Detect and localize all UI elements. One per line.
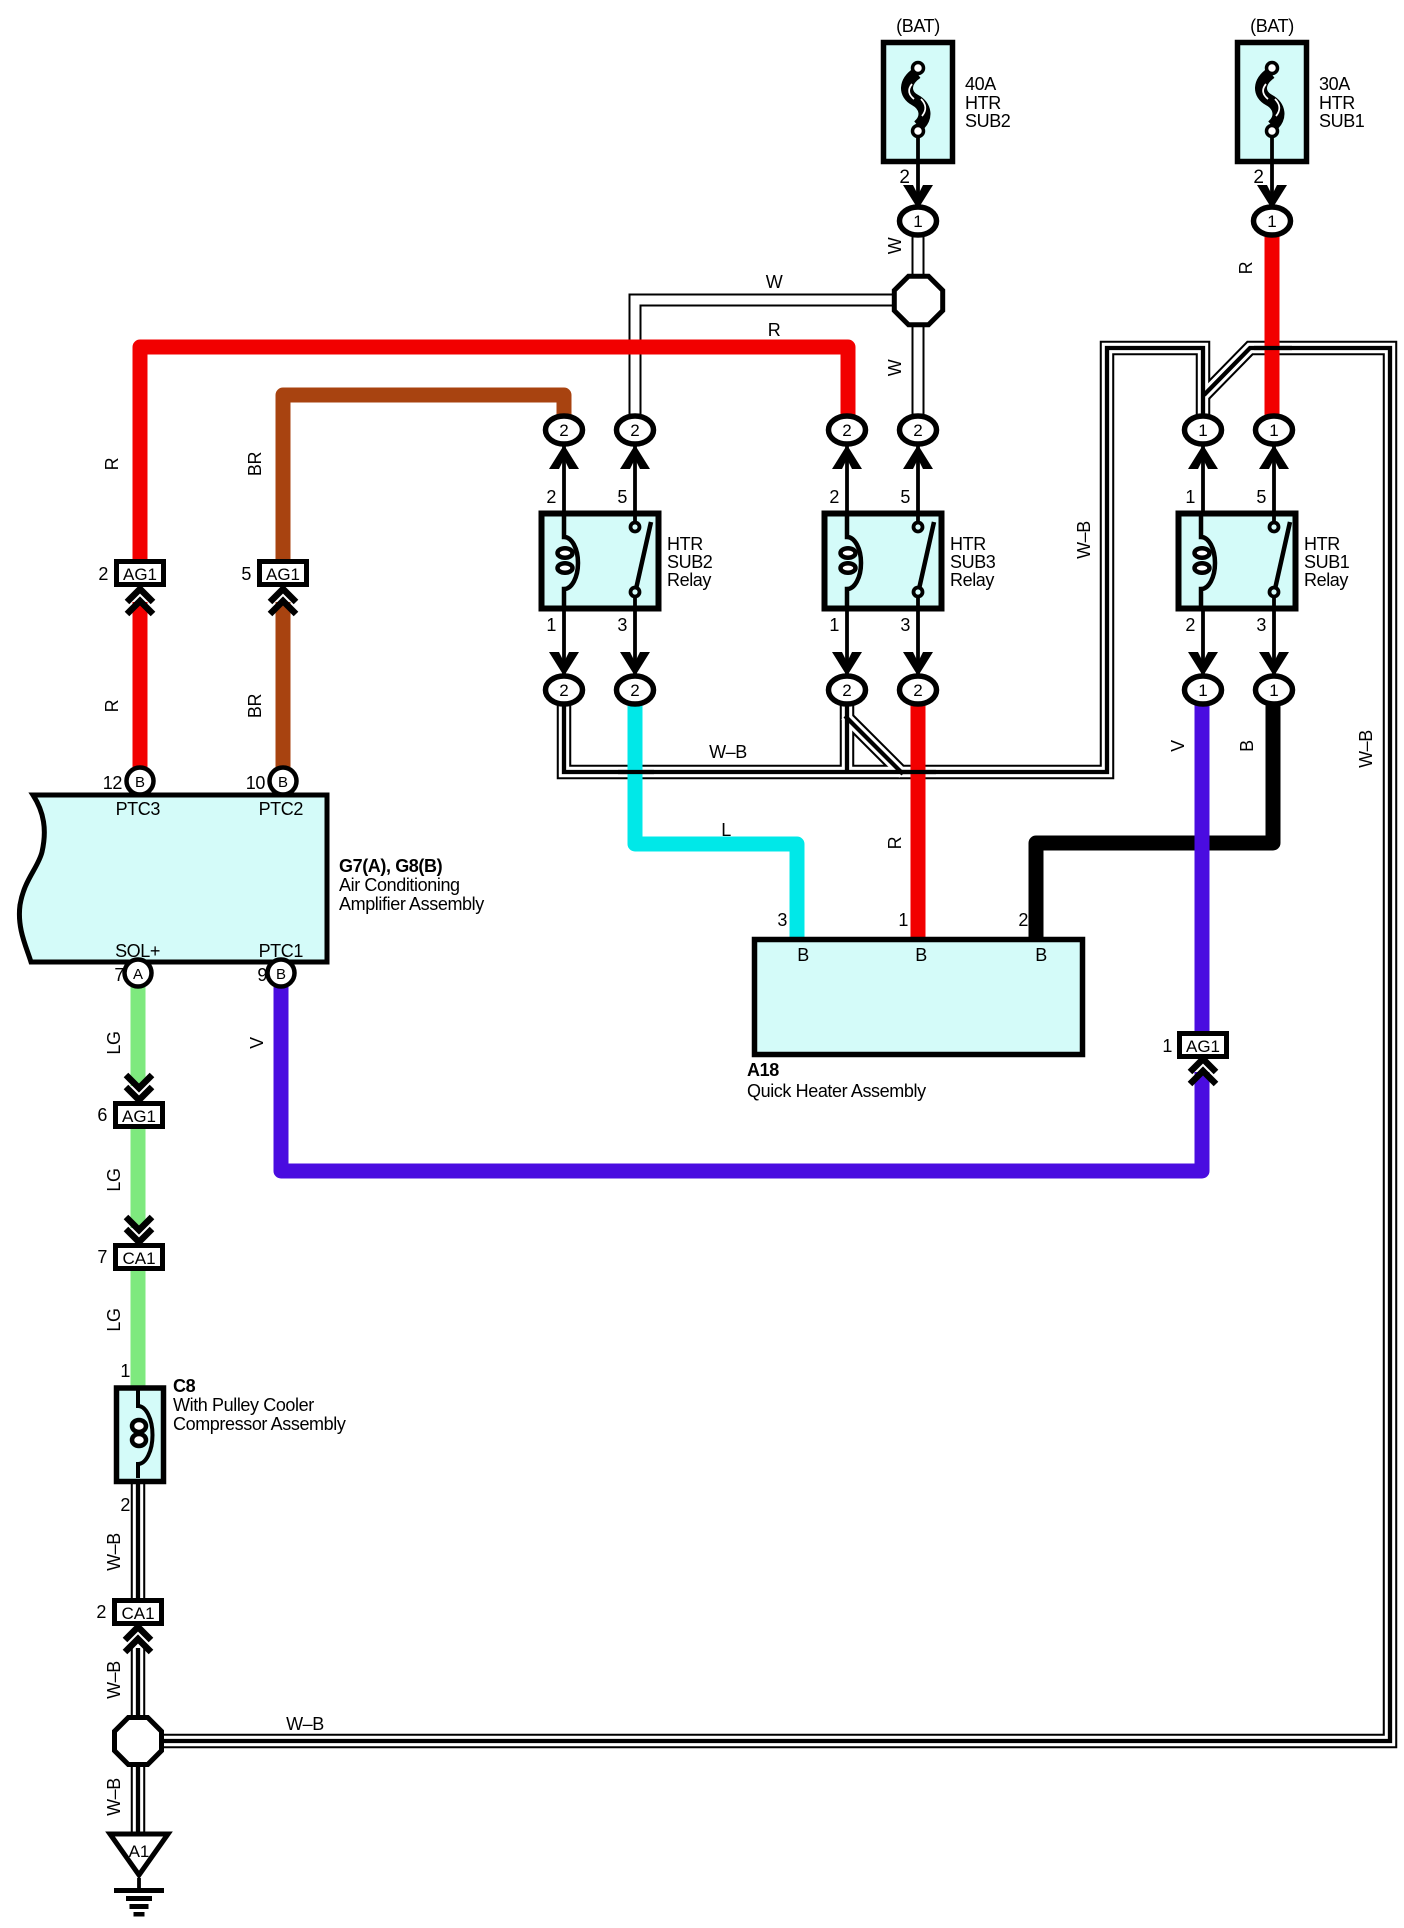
arrow up at SUB2 relay pin2	[549, 445, 579, 469]
arrow down at SUB1 relay pin3	[1259, 652, 1289, 676]
arrow down at SUB2 relay pin1	[549, 652, 579, 676]
svg-text:SUB2: SUB2	[667, 552, 713, 572]
svg-text:B: B	[1035, 945, 1047, 965]
svg-text:(BAT): (BAT)	[896, 16, 940, 36]
svg-text:10: 10	[246, 773, 266, 793]
wire R: amplifier PTC3 pin12 to HTR SUB3 relay coil pin2	[140, 347, 848, 561]
svg-text:3: 3	[777, 910, 787, 930]
connector ellipse 1 at SUB1 relay pin5	[1256, 416, 1293, 444]
amplifier pin 10 circle B	[270, 768, 297, 795]
wire B: SUB1 relay pin3 to A18 pin2	[1036, 690, 1273, 940]
amplifier pin 9 circle B	[268, 960, 295, 987]
svg-text:SUB1: SUB1	[1304, 552, 1350, 572]
svg-text:2: 2	[842, 681, 851, 700]
wire W junction octagon to SUB2 relay pin5	[635, 300, 918, 430]
svg-text:2: 2	[842, 421, 851, 440]
svg-text:5: 5	[617, 487, 627, 507]
svg-text:W–B: W–B	[104, 1533, 124, 1571]
svg-text:PTC3: PTC3	[116, 799, 161, 819]
arrow into fuse SUB1 output connector	[1257, 185, 1287, 209]
wire W fuse SUB2 to junction octagon	[912, 226, 925, 301]
svg-text:R: R	[768, 320, 781, 340]
connector ellipse 1 below fuse SUB2	[900, 207, 937, 235]
svg-text:A: A	[133, 966, 143, 983]
svg-text:AG1: AG1	[122, 1107, 156, 1126]
svg-text:SUB2: SUB2	[965, 111, 1011, 131]
svg-text:30A: 30A	[1319, 74, 1350, 94]
LAYER: W-WIRES	[635, 226, 918, 430]
wire R: fuse HTR SUB1 to SUB1 relay pin5	[1265, 228, 1280, 434]
svg-text:1: 1	[1198, 421, 1207, 440]
connector AG1 #6	[116, 1104, 163, 1127]
svg-text:W: W	[885, 359, 905, 376]
svg-text:C8: C8	[173, 1376, 196, 1396]
LAYER: CORE-REDRAW	[618, 348, 1292, 772]
wire W-B drop from SUB3 relay pin1	[842, 690, 852, 772]
svg-text:2: 2	[559, 421, 568, 440]
connector ellipse 1 at SUB1 relay pin2	[1185, 676, 1222, 704]
svg-text:LG: LG	[104, 1308, 124, 1331]
switch contact of relay HTR SUB1	[1275, 522, 1290, 589]
svg-text:2: 2	[1253, 167, 1264, 188]
LAYER: COMPONENTS	[19, 43, 1306, 1482]
svg-text:CA1: CA1	[122, 1249, 155, 1268]
wire W-B drop from SUB3 relay pin1	[845, 690, 849, 772]
wire W-B core over R wire crossing	[900, 770, 936, 774]
connector AG1 #5	[260, 562, 307, 585]
amplifier pin 12 circle B	[127, 768, 154, 795]
connector ellipse 2 at SUB2 relay pin1	[546, 676, 583, 704]
svg-text:2: 2	[120, 1495, 130, 1515]
arrow up at SUB3 relay pin2	[832, 445, 862, 469]
connector CA1 #7	[116, 1246, 163, 1269]
svg-text:A1: A1	[129, 1842, 150, 1861]
connector ellipse 2 at SUB2 relay pin5	[617, 416, 654, 444]
fuse 30A HTR SUB1	[1238, 43, 1307, 217]
arrow up at SUB1 relay pin5	[1259, 445, 1289, 469]
svg-text:AG1: AG1	[1186, 1037, 1220, 1056]
svg-text:Quick Heater Assembly: Quick Heater Assembly	[747, 1081, 926, 1101]
switch contact of relay HTR SUB2	[636, 522, 651, 589]
svg-text:CA1: CA1	[121, 1604, 154, 1623]
coil of relay HTR SUB3	[847, 516, 861, 609]
wire W-B ground octagon to ground A1	[131, 1762, 146, 1836]
wire W-B core over R wire crossing top	[1254, 346, 1292, 350]
svg-text:LG: LG	[104, 1031, 124, 1054]
switch contact of relay HTR SUB3	[919, 522, 934, 589]
connector ellipse 2 at SUB2 relay pin3	[617, 676, 654, 704]
svg-text:Air Conditioning: Air Conditioning	[339, 875, 460, 895]
svg-text:2: 2	[630, 421, 639, 440]
svg-text:5: 5	[1256, 487, 1266, 507]
wire W junction octagon to SUB3 relay pin5	[912, 301, 925, 430]
svg-text:W: W	[766, 272, 783, 292]
svg-text:Relay: Relay	[1304, 570, 1348, 590]
svg-text:2: 2	[899, 167, 910, 188]
svg-text:A18: A18	[747, 1060, 779, 1080]
connector CA1 #2	[115, 1601, 162, 1624]
arrow down at SUB2 relay pin3	[620, 652, 650, 676]
svg-text:PTC1: PTC1	[259, 941, 304, 961]
svg-text:1: 1	[120, 1361, 130, 1381]
connector AG1 #1	[1180, 1034, 1227, 1057]
wire W-B ground octagon to ground A1	[133, 1762, 143, 1836]
svg-text:W–B: W–B	[1356, 730, 1376, 768]
arrow down at SUB1 relay pin2	[1188, 652, 1218, 676]
connector ellipse 1 below fuse SUB1	[1254, 207, 1291, 235]
wire V: amplifier PTC1 pin9 to SUB1 relay coil pin2	[281, 985, 1202, 1171]
wire W-B main: SUB2 relay pin1 to SUB1 relay pin1	[564, 348, 1203, 772]
ground symbol A1	[110, 1834, 168, 1875]
arrow up at SUB3 relay pin5	[903, 445, 933, 469]
svg-text:B: B	[915, 945, 927, 965]
svg-text:R: R	[102, 457, 122, 470]
wire W-B diagonal join at SUB3 relay pin1	[845, 716, 903, 774]
svg-text:BR: BR	[245, 452, 265, 477]
svg-text:7: 7	[97, 1247, 107, 1267]
svg-text:1: 1	[1198, 681, 1207, 700]
wire LG: amplifier SOL+ pin7 to compressor C8	[131, 985, 146, 1086]
wire W-B branch: SUB1 junction to right edge and ground octagon	[160, 348, 1390, 1741]
svg-text:2: 2	[98, 564, 108, 584]
svg-text:HTR: HTR	[1319, 93, 1355, 113]
arrow up at SUB1 relay pin1	[1188, 445, 1218, 469]
coil of relay HTR SUB2	[564, 516, 578, 609]
svg-text:G7(A), G8(B): G7(A), G8(B)	[339, 856, 443, 876]
coil of relay HTR SUB1	[1201, 516, 1215, 609]
wire W-B branch: SUB1 junction to right edge and ground octagon	[160, 348, 1390, 1741]
svg-text:5: 5	[900, 487, 910, 507]
svg-text:1: 1	[1269, 421, 1278, 440]
svg-text:W–B: W–B	[1074, 521, 1094, 559]
svg-text:With Pulley Cooler: With Pulley Cooler	[173, 1395, 314, 1415]
svg-text:HTR: HTR	[667, 534, 703, 554]
svg-text:Relay: Relay	[950, 570, 994, 590]
wire R: SUB3 relay pin3 to A18 pin1	[911, 690, 926, 940]
connector ellipse 2 at SUB3 relay pin3	[900, 676, 937, 704]
svg-text:R: R	[102, 699, 122, 712]
svg-text:W–B: W–B	[286, 1714, 324, 1734]
wire W-B CA1 connector to ground octagon	[133, 1648, 143, 1720]
connector ellipse 2 at SUB2 relay pin2	[546, 416, 583, 444]
svg-text:R: R	[885, 836, 905, 849]
wire W-B diagonal join at SUB3 relay pin1	[845, 716, 903, 774]
connector AG1 #2	[117, 562, 164, 585]
wire W junction octagon to SUB2 relay pin5	[635, 300, 918, 430]
svg-text:2: 2	[829, 487, 839, 507]
arrow into fuse SUB2 output connector	[903, 185, 933, 209]
svg-text:3: 3	[900, 615, 910, 635]
box G7/G8 Air Conditioning Amplifier Assembly	[19, 795, 327, 962]
relay HTR SUB2	[542, 434, 659, 686]
LAYER: WB-WIRES	[138, 348, 1390, 1836]
arrow down at SUB3 relay pin3	[903, 652, 933, 676]
LAYER: PINS	[110, 185, 1293, 1917]
svg-text:1: 1	[1185, 487, 1195, 507]
svg-text:SUB3: SUB3	[950, 552, 996, 572]
svg-text:2: 2	[913, 421, 922, 440]
svg-text:2: 2	[546, 487, 556, 507]
LAYER: JUNCTIONS	[115, 276, 943, 1764]
wire W-B CA1 connector to ground octagon	[131, 1648, 146, 1720]
svg-text:9: 9	[257, 965, 267, 985]
svg-text:1: 1	[1162, 1036, 1172, 1056]
wire BR: amplifier PTC2 pin10 to SUB2 relay coil pin2	[283, 395, 564, 561]
svg-text:1: 1	[898, 910, 908, 930]
svg-text:BR: BR	[245, 694, 265, 719]
svg-text:B: B	[276, 966, 286, 983]
svg-text:HTR: HTR	[950, 534, 986, 554]
fuse 40A HTR SUB2	[884, 43, 953, 217]
svg-text:W–B: W–B	[104, 1778, 124, 1816]
connector ellipse 1 at SUB1 relay pin3	[1256, 676, 1293, 704]
box A18 Quick Heater Assembly	[755, 940, 1083, 1055]
svg-text:HTR: HTR	[965, 93, 1001, 113]
wire W-B main: SUB2 relay pin1 to SUB1 relay pin1	[564, 348, 1203, 772]
svg-text:V: V	[1168, 740, 1188, 752]
arrow up at SUB2 relay pin5	[620, 445, 650, 469]
amplifier pin 7 circle A	[125, 960, 152, 987]
svg-text:L: L	[721, 820, 731, 840]
svg-text:1: 1	[1269, 681, 1278, 700]
svg-text:R: R	[1236, 261, 1256, 274]
svg-text:1: 1	[546, 615, 556, 635]
wire W-B C8 pin2 to CA1 connector	[136, 1478, 140, 1602]
svg-text:7: 7	[114, 965, 124, 985]
svg-text:AG1: AG1	[266, 565, 300, 584]
svg-text:40A: 40A	[965, 74, 996, 94]
svg-text:2: 2	[1185, 615, 1195, 635]
node: junction octagon below fuse HTR SUB2	[894, 276, 942, 325]
svg-text:AG1: AG1	[123, 565, 157, 584]
svg-text:3: 3	[617, 615, 627, 635]
svg-text:1: 1	[829, 615, 839, 635]
svg-text:2: 2	[559, 681, 568, 700]
wire W: fuse HTR SUB2 to junction octagon and relays	[635, 226, 918, 430]
svg-text:2: 2	[913, 681, 922, 700]
svg-text:B: B	[135, 774, 145, 791]
svg-text:2: 2	[630, 681, 639, 700]
wire W-B C8 pin2 to CA1 connector	[133, 1478, 143, 1602]
svg-text:LG: LG	[104, 1168, 124, 1191]
svg-text:B: B	[1237, 740, 1257, 752]
svg-text:1: 1	[913, 212, 922, 231]
svg-text:1: 1	[1267, 212, 1276, 231]
svg-text:2: 2	[96, 1602, 106, 1622]
svg-text:V: V	[247, 1037, 267, 1049]
wire W-B branch: SUB1 junction to right edge and ground octagon	[160, 348, 1390, 1741]
LAYER: COLOR-WIRES	[138, 228, 1273, 1388]
svg-text:5: 5	[241, 564, 251, 584]
connector ellipse 1 at SUB1 relay pin1	[1185, 416, 1222, 444]
svg-text:3: 3	[1256, 615, 1266, 635]
connector ellipse 2 at SUB3 relay pin1	[829, 676, 866, 704]
svg-text:W: W	[885, 237, 905, 254]
wire W-B ground octagon to ground A1	[136, 1762, 140, 1836]
svg-text:SOL+: SOL+	[115, 941, 160, 961]
svg-text:(BAT): (BAT)	[1250, 16, 1294, 36]
relay HTR SUB3	[825, 434, 942, 686]
svg-text:HTR: HTR	[1304, 534, 1340, 554]
svg-text:12: 12	[103, 773, 123, 793]
wire W-B main loop: SUB2 relay pin1 to SUB1 relay pin1	[138, 348, 1390, 1836]
wire W-B CA1 connector to ground octagon	[136, 1648, 140, 1720]
svg-text:Compressor Assembly: Compressor Assembly	[173, 1414, 346, 1434]
wire W-B C8 pin2 to CA1 connector	[131, 1478, 146, 1602]
compressor C8 coil box	[117, 1388, 164, 1482]
wire W junction octagon to SUB3 relay pin5	[914, 301, 923, 430]
coil of compressor C8	[138, 1390, 153, 1478]
arrow down at SUB3 relay pin1	[832, 652, 862, 676]
svg-text:Relay: Relay	[667, 570, 711, 590]
relay HTR SUB1	[1179, 434, 1296, 686]
svg-text:B: B	[278, 774, 288, 791]
svg-text:B: B	[797, 945, 809, 965]
connector ellipse 2 at SUB3 relay pin5	[900, 416, 937, 444]
connector ellipse 2 at SUB3 relay pin2	[829, 416, 866, 444]
svg-text:W–B: W–B	[709, 742, 747, 762]
wire W fuse SUB2 to junction octagon	[914, 226, 923, 301]
svg-text:PTC2: PTC2	[259, 799, 304, 819]
wire W-B main: SUB2 relay pin1 to SUB1 relay pin1	[564, 348, 1203, 772]
wire L: SUB2 relay pin3 to A18 pin3	[635, 690, 797, 940]
svg-text:Amplifier Assembly: Amplifier Assembly	[339, 894, 484, 914]
wire W-B core over L wire crossing	[618, 770, 654, 774]
svg-text:6: 6	[97, 1105, 107, 1125]
svg-text:SUB1: SUB1	[1319, 111, 1365, 131]
wire W-B diagonal join at SUB3 relay pin1	[845, 716, 903, 774]
svg-text:W–B: W–B	[104, 1661, 124, 1699]
node: ground junction octagon	[115, 1718, 162, 1765]
svg-text:2: 2	[1018, 910, 1028, 930]
wire W-B drop from SUB3 relay pin1	[840, 690, 855, 772]
